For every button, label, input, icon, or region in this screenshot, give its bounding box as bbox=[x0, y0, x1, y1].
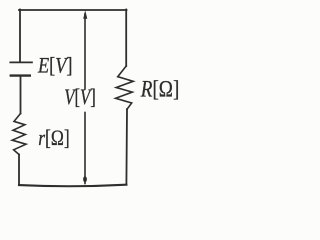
svg-text:r[Ω]: r[Ω] bbox=[38, 125, 70, 150]
wire top horizontal bbox=[19, 9, 127, 11]
wire right upper bbox=[125, 10, 127, 67]
arrowhead of V arrow (points up) bbox=[83, 10, 87, 19]
svg-text:R[Ω]: R[Ω] bbox=[140, 77, 179, 102]
wire right lower bbox=[125, 109, 128, 184]
wire voltmeter arrow stem lower bbox=[84, 113, 86, 184]
wire left upper bbox=[19, 10, 21, 62]
battery E negative plate bbox=[11, 74, 30, 76]
resistor r zigzag bbox=[12, 114, 26, 155]
wire left middle bbox=[20, 77, 22, 114]
svg-text:E[V]: E[V] bbox=[37, 52, 72, 77]
wire left lower bbox=[18, 155, 20, 186]
battery E positive plate bbox=[10, 61, 32, 63]
wire bottom horizontal bbox=[19, 185, 126, 187]
wire voltmeter arrow stem upper bbox=[84, 14, 86, 89]
junction dot on bottom wire bbox=[83, 176, 87, 182]
svg-text:V[V]: V[V] bbox=[64, 84, 96, 109]
resistor R zigzag bbox=[116, 66, 134, 109]
